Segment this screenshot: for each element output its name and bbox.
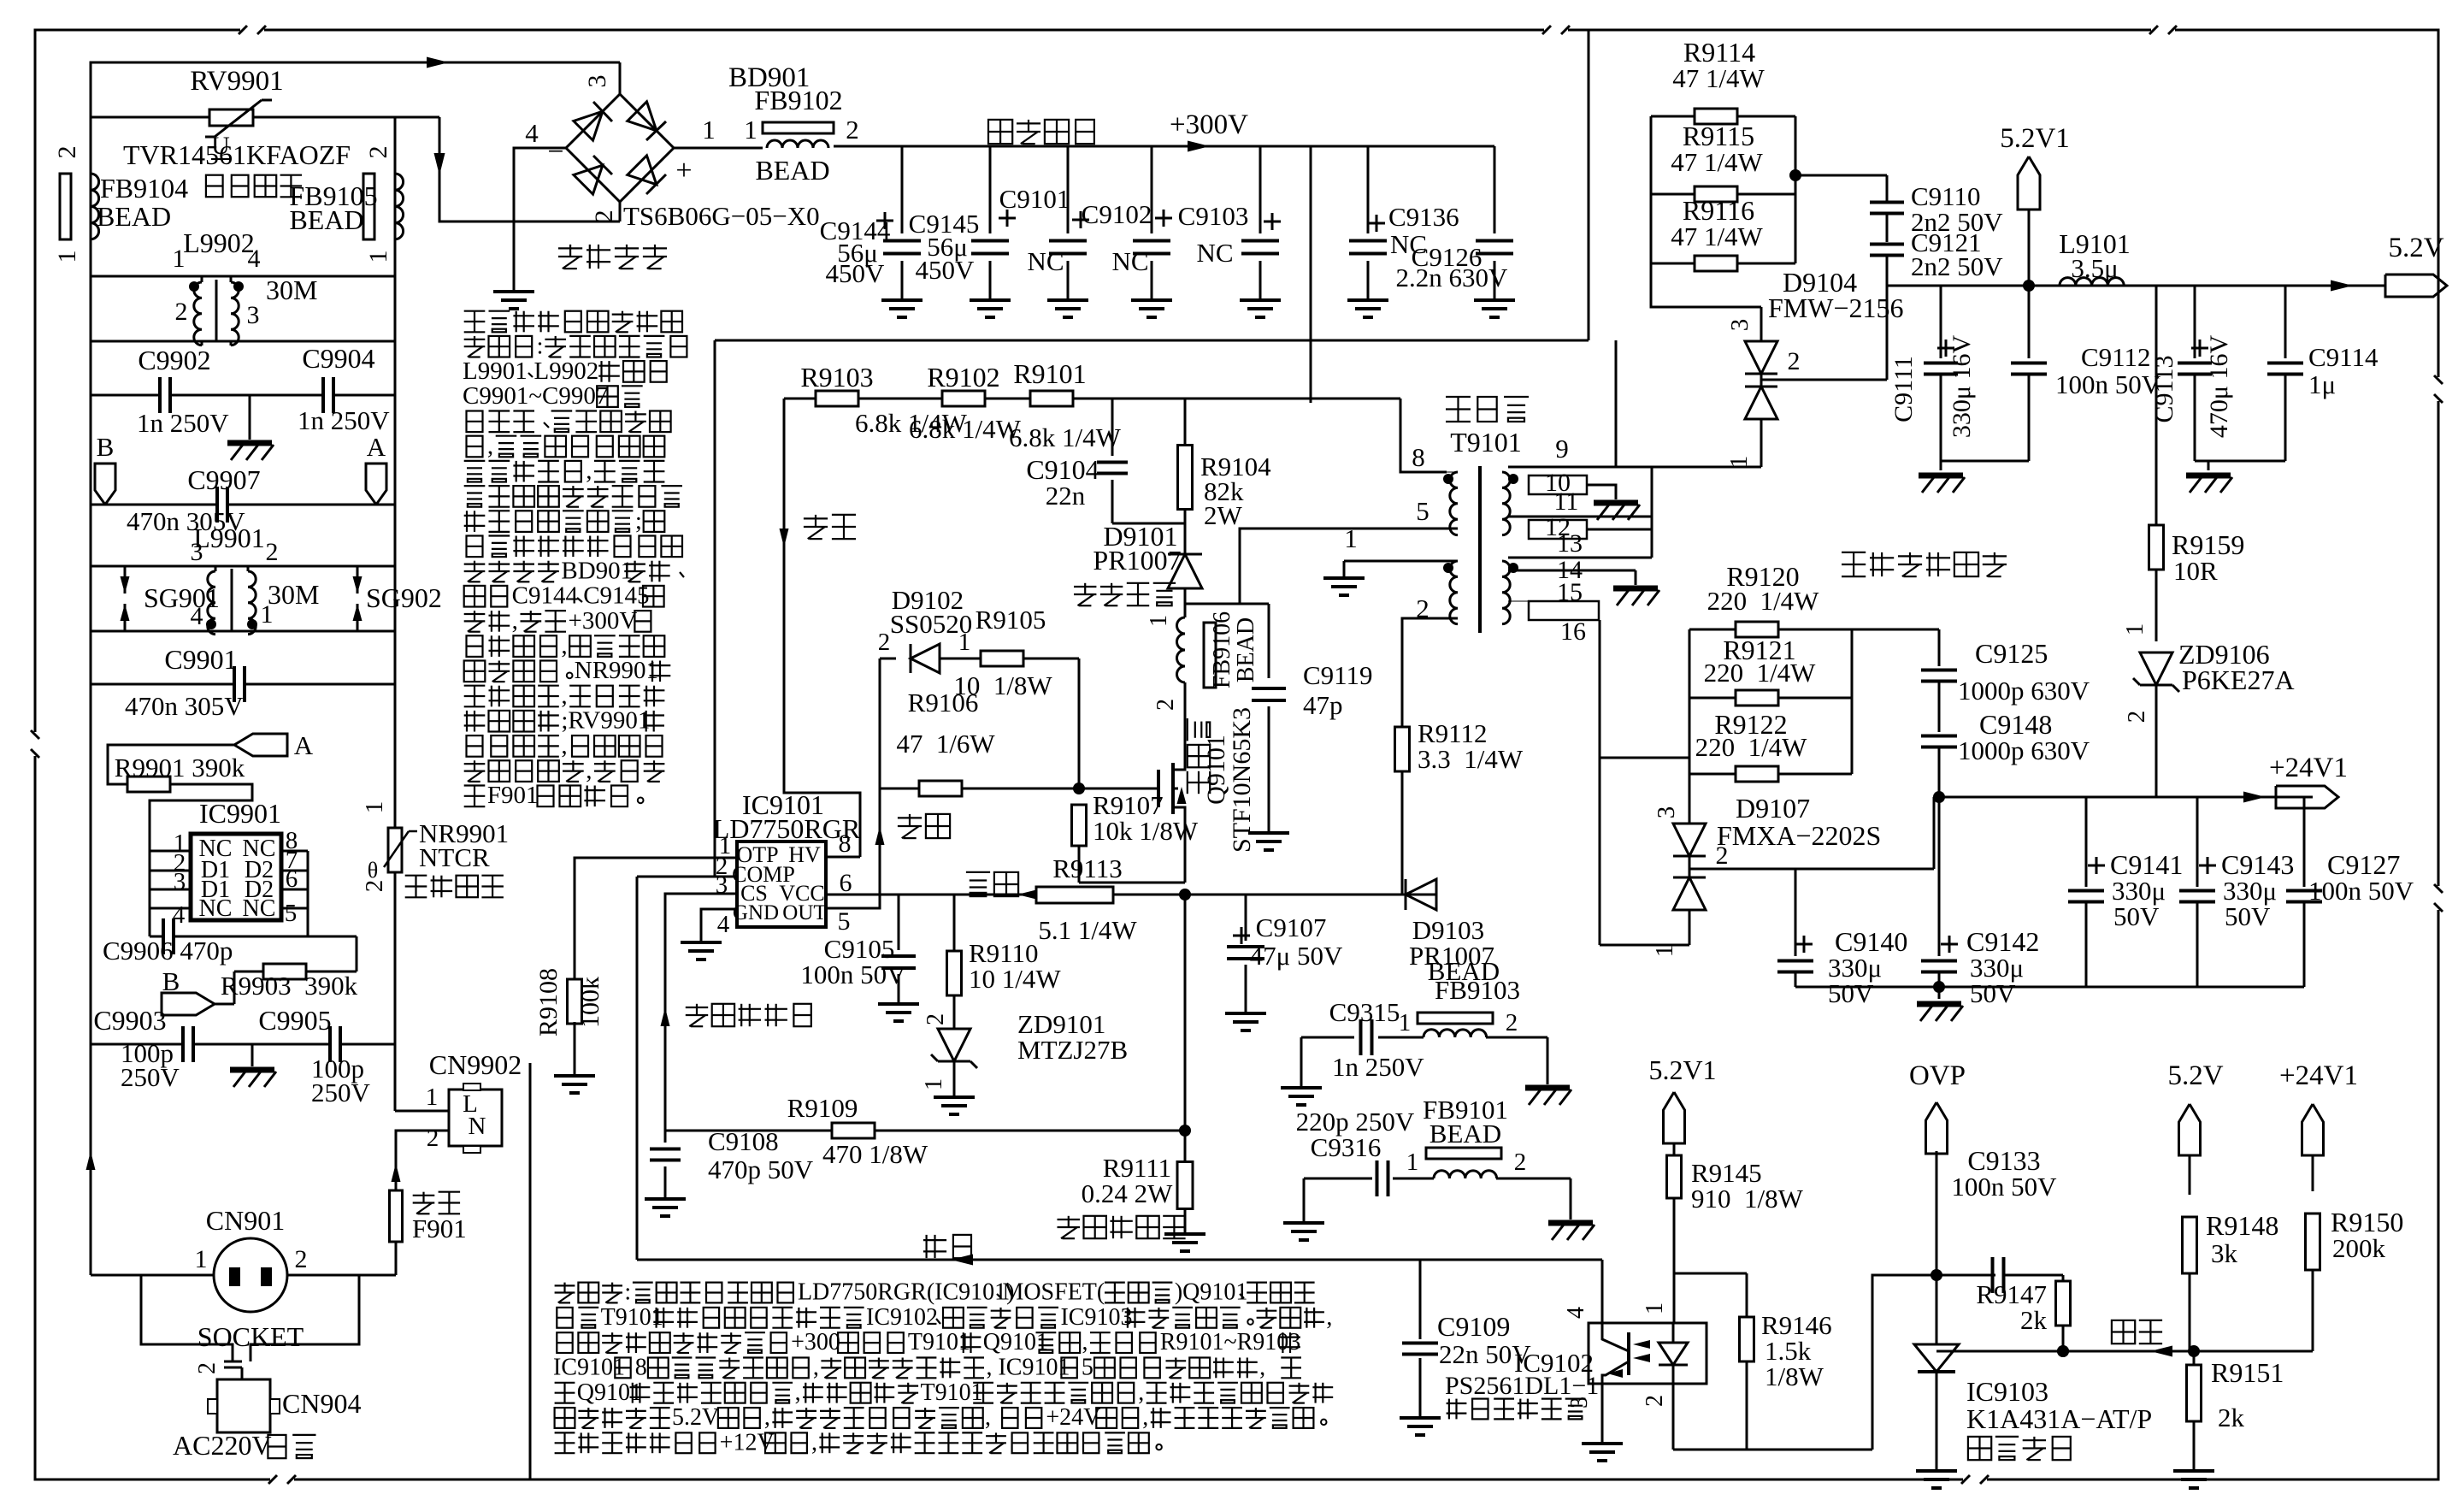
current sense resistor R9111 <box>1184 895 1187 1165</box>
wire chain to caps <box>1795 174 1887 177</box>
svg-text:;: ; <box>635 507 642 534</box>
svg-text:2: 2 <box>364 146 392 159</box>
svg-text:1: 1 <box>2121 623 2149 636</box>
svg-text:3k: 3k <box>2211 1238 2238 1268</box>
svg-text:5: 5 <box>838 907 851 936</box>
svg-text:8: 8 <box>839 830 852 858</box>
wire L9901 top <box>91 565 395 568</box>
wire to R9159 <box>2155 286 2158 525</box>
svg-text:47μ 50V: 47μ 50V <box>1250 941 1343 971</box>
svg-text:,: , <box>487 432 493 459</box>
pin13 wire <box>1508 557 1652 559</box>
svg-text:L9902: L9902 <box>534 357 599 385</box>
resistor R9107 <box>1072 805 1087 846</box>
svg-text:3.3 1/4W: 3.3 1/4W <box>1418 744 1524 774</box>
border break marks <box>240 25 264 35</box>
flag A mid <box>234 734 287 756</box>
svg-text:,: , <box>512 607 518 635</box>
svg-text:C9108: C9108 <box>708 1126 779 1156</box>
svg-text:9: 9 <box>1555 434 1569 464</box>
svg-text:R9108: R9108 <box>534 968 563 1036</box>
pin1 lead to R9108 <box>575 858 737 981</box>
svg-text:R9148: R9148 <box>2206 1210 2278 1241</box>
pin2 lead COMP <box>637 876 737 878</box>
svg-text:11: 11 <box>1554 487 1579 516</box>
svg-text:50V: 50V <box>2225 901 2271 931</box>
svg-text:CN9902: CN9902 <box>429 1049 522 1080</box>
svg-text:2: 2 <box>878 629 891 656</box>
svg-text:220 1/4W: 220 1/4W <box>1704 658 1817 688</box>
caps C9110 C9121 <box>1886 175 1889 202</box>
svg-text:22n 50V: 22n 50V <box>1439 1339 1531 1369</box>
arrow on top wire <box>427 57 449 68</box>
cap C9142 <box>1938 797 1941 956</box>
wire top L line <box>91 62 620 117</box>
svg-text:NTCR: NTCR <box>419 842 490 872</box>
svg-text:22n: 22n <box>1046 481 1086 511</box>
svg-text:R9103: R9103 <box>800 362 873 393</box>
fuse F901 <box>390 1190 403 1242</box>
IC9901 pin leads right <box>281 850 308 853</box>
secondary gnd rail <box>1795 986 2304 989</box>
svg-text:3: 3 <box>1726 319 1754 332</box>
resistor R9146 <box>1746 1273 1748 1317</box>
svg-text:−: − <box>547 136 563 168</box>
svg-text:F901: F901 <box>487 782 539 809</box>
zener ZD9106 <box>2140 653 2172 685</box>
wire CN9902 N to fuse <box>396 1131 449 1190</box>
svg-text:C9901~C9907: C9901~C9907 <box>463 382 608 410</box>
svg-text:;RV9901: ;RV9901 <box>561 707 650 735</box>
svg-text:MOSFET(: MOSFET( <box>1002 1279 1105 1306</box>
svg-text:1: 1 <box>173 245 186 273</box>
caps C9125 C9148 <box>1938 629 1941 666</box>
svg-text:C9113: C9113 <box>2150 356 2178 423</box>
svg-text:C9114: C9114 <box>2308 342 2379 372</box>
D9104 left bus <box>1651 263 1761 307</box>
svg-text:4: 4 <box>248 245 261 273</box>
resistor R9151 <box>2193 1351 2196 1365</box>
svg-text:NC: NC <box>1027 246 1064 276</box>
wire AC to bridge pin2 <box>439 117 620 221</box>
svg-text:IC9103: IC9103 <box>1966 1376 2048 1407</box>
svg-text:C9103: C9103 <box>1178 201 1249 231</box>
snubber C9315 row <box>1301 1036 1354 1039</box>
svg-text:3: 3 <box>1653 806 1680 819</box>
svg-text:B: B <box>162 966 180 996</box>
svg-text:IC9901: IC9901 <box>199 798 281 829</box>
resistor R9145 <box>1667 1155 1682 1198</box>
C9111 C9112 gnd <box>1941 460 2029 463</box>
svg-text:50V: 50V <box>1970 978 2016 1008</box>
svg-text:L9901: L9901 <box>463 357 528 385</box>
svg-text:30M: 30M <box>268 579 319 610</box>
svg-text:C9315: C9315 <box>1329 997 1400 1027</box>
wire CN9902 L <box>394 1044 397 1111</box>
svg-text:,: , <box>561 682 567 709</box>
wire y398 bus <box>715 340 1589 342</box>
svg-text:+24V: +24V <box>1046 1404 1100 1431</box>
diode D9104 <box>1760 307 1763 342</box>
pin5 OUT lead <box>826 658 880 908</box>
svg-text:PR1007: PR1007 <box>1093 545 1181 576</box>
IC9901 pin leads left <box>150 850 191 853</box>
svg-text:47 1/6W: 47 1/6W <box>896 729 995 759</box>
svg-text:FB9102: FB9102 <box>754 85 842 115</box>
svg-text:5.2V1: 5.2V1 <box>2000 123 2070 154</box>
socket lower loop <box>141 1275 233 1361</box>
chassis ground mid <box>249 395 251 440</box>
svg-text:IC9103: IC9103 <box>1060 1304 1132 1331</box>
startup resistor row <box>784 398 816 400</box>
diode D9101 snubber <box>1184 523 1187 554</box>
svg-text:SG902: SG902 <box>366 582 442 613</box>
wire pin9 riser <box>1615 340 1618 467</box>
diode D9107 <box>1673 824 1706 856</box>
sampling rail <box>1936 1350 2313 1353</box>
D9107 pin2 rail <box>1689 868 1934 871</box>
svg-text:2: 2 <box>1514 1149 1527 1176</box>
svg-text:C9101: C9101 <box>999 184 1070 214</box>
svg-text:330μ 16V: 330μ 16V <box>1948 335 1976 439</box>
cap C9113 <box>2194 286 2196 358</box>
wire L9901 bottom <box>91 630 395 633</box>
svg-text:T9101: T9101 <box>1450 427 1522 458</box>
svg-text:A: A <box>367 432 386 462</box>
svg-text:10R: 10R <box>2173 556 2218 586</box>
cap C9111 <box>1940 286 1942 358</box>
bridge pin3 wire <box>619 62 622 94</box>
bridge BD901 <box>566 94 674 202</box>
svg-text:100n 50V: 100n 50V <box>800 960 906 989</box>
resistor R9110 <box>953 895 956 951</box>
wire L9902 top <box>91 275 395 278</box>
svg-text:BEAD: BEAD <box>1233 617 1259 682</box>
svg-text:R9101~R9103: R9101~R9103 <box>1160 1329 1301 1355</box>
svg-text:3: 3 <box>247 301 260 329</box>
svg-text:10 1/4W: 10 1/4W <box>969 964 1061 994</box>
svg-text:1: 1 <box>261 600 274 629</box>
svg-text:,: , <box>586 757 592 784</box>
svg-text:R9105: R9105 <box>976 605 1046 635</box>
svg-text:+24V1: +24V1 <box>2269 753 2348 783</box>
svg-text:1μ: 1μ <box>2308 369 2336 399</box>
svg-text:C9112: C9112 <box>2081 342 2151 372</box>
svg-text:2: 2 <box>175 298 188 326</box>
svg-text:100n 50V: 100n 50V <box>1951 1172 2057 1202</box>
wire R9901 net <box>108 745 234 784</box>
svg-text:BEAD: BEAD <box>1429 1119 1501 1149</box>
svg-text:T9101: T9101 <box>908 1329 970 1355</box>
svg-text:FB9106: FB9106 <box>1209 611 1235 688</box>
svg-text:2.2n 630V: 2.2n 630V <box>1396 263 1509 292</box>
svg-text:R9106: R9106 <box>908 688 979 718</box>
COMP to regulation rail <box>636 877 639 1260</box>
svg-text:R9113: R9113 <box>1052 853 1123 883</box>
spark gap SG902 <box>357 566 359 594</box>
diode D9103 <box>1406 879 1436 910</box>
pin16 taps to D9107 <box>1600 757 1689 759</box>
svg-text:2W: 2W <box>1204 500 1243 530</box>
svg-text:C9316: C9316 <box>1311 1132 1382 1162</box>
pins 9-13 join <box>1651 467 1653 558</box>
svg-text:5.2V: 5.2V <box>2388 233 2443 263</box>
svg-text::: : <box>537 333 544 360</box>
svg-text:LD7750RGR(IC9101): LD7750RGR(IC9101) <box>798 1279 1015 1306</box>
regulation rail <box>637 1259 1602 1261</box>
gate net down <box>1078 658 1081 788</box>
svg-text:470n 305V: 470n 305V <box>125 691 244 721</box>
svg-text:+300: +300 <box>791 1329 840 1355</box>
svg-text:470p 50V: 470p 50V <box>708 1155 814 1184</box>
bridge pin2 wire <box>619 202 622 221</box>
svg-text:2n2 50V: 2n2 50V <box>1911 251 2003 281</box>
zener ZD9101 <box>938 1029 970 1061</box>
svg-text:1/8W: 1/8W <box>1765 1361 1824 1391</box>
svg-text:1: 1 <box>958 629 971 656</box>
+24V1 rail <box>1934 796 2313 799</box>
wire x1858 up to border <box>1588 31 1590 340</box>
svg-text:2: 2 <box>1642 1395 1668 1407</box>
label secondary rect CJK <box>1842 552 1866 553</box>
resistor R9147 <box>2062 1275 2065 1282</box>
resistor R9150 <box>2306 1214 2320 1270</box>
svg-text:2: 2 <box>2123 711 2150 723</box>
D9104 pin2 wire <box>1761 379 1887 381</box>
wire C9907 row <box>91 504 217 506</box>
svg-text:,: , <box>1326 1304 1332 1331</box>
svg-text:C9144: C9144 <box>512 582 579 610</box>
svg-text:8: 8 <box>635 1355 647 1381</box>
svg-text:,: , <box>811 1429 817 1456</box>
svg-text:R9101: R9101 <box>1013 358 1086 389</box>
separator line <box>529 1063 532 1479</box>
svg-text:STF10N65K3: STF10N65K3 <box>1228 707 1256 853</box>
svg-text:,: , <box>1082 1329 1088 1355</box>
svg-text:2: 2 <box>194 1362 221 1374</box>
svg-text:C9907: C9907 <box>187 464 260 495</box>
svg-text:100k: 100k <box>576 977 604 1028</box>
pin4 lead GND <box>701 909 737 942</box>
cap C9114 <box>2284 286 2287 358</box>
left block left wire <box>90 117 92 1275</box>
svg-text:1: 1 <box>1651 945 1678 958</box>
text block anti-interference CJK <box>464 310 486 312</box>
arrow left line <box>86 1151 96 1170</box>
svg-text:,: , <box>1142 1404 1148 1431</box>
svg-text:+: + <box>675 155 692 186</box>
svg-text:C9111: C9111 <box>1889 356 1918 422</box>
svg-text:FB9104: FB9104 <box>100 173 188 204</box>
pin14 wire <box>1508 570 1636 572</box>
svg-text:L9902: L9902 <box>183 227 255 258</box>
svg-text:2: 2 <box>846 115 859 145</box>
svg-text:1: 1 <box>1406 1149 1419 1176</box>
pin8 HV lead <box>826 856 860 859</box>
cap C9140 <box>1795 869 1797 956</box>
svg-text:3: 3 <box>583 75 611 88</box>
svg-text:30M: 30M <box>266 275 317 305</box>
svg-text:1: 1 <box>426 1084 439 1111</box>
svg-text:BEAD: BEAD <box>97 201 171 232</box>
svg-text:2: 2 <box>295 1245 308 1273</box>
svg-text:2k: 2k <box>2218 1403 2245 1432</box>
varistor RV9901 <box>209 109 253 126</box>
svg-text:,: , <box>561 732 567 759</box>
CS sense row R9109 <box>665 1130 833 1132</box>
svg-text:5: 5 <box>1082 1355 1093 1381</box>
svg-text:NC: NC <box>243 895 276 922</box>
svg-text:8: 8 <box>1412 442 1425 472</box>
T9101 primary top winding <box>1450 472 1458 535</box>
svg-text:OUT: OUT <box>782 901 826 924</box>
cap C9108 <box>664 1131 667 1143</box>
filter caps on rail <box>901 146 904 233</box>
svg-text:R9151: R9151 <box>2211 1357 2284 1388</box>
bridge pin4 wire <box>514 148 566 292</box>
svg-text:C9145: C9145 <box>583 582 649 610</box>
svg-text:A: A <box>294 730 314 760</box>
svg-text:47 1/4W: 47 1/4W <box>1671 221 1763 251</box>
svg-text:100n 50V: 100n 50V <box>2308 876 2414 906</box>
svg-text:16: 16 <box>1560 617 1586 646</box>
svg-text:1: 1 <box>1399 1009 1412 1036</box>
svg-text:C9107: C9107 <box>1256 912 1327 942</box>
svg-text:220 1/4W: 220 1/4W <box>1695 732 1808 762</box>
svg-text:1: 1 <box>744 115 757 145</box>
T9101 secondary upper winding <box>1502 472 1510 535</box>
svg-text:+24V1: +24V1 <box>2279 1060 2358 1091</box>
svg-text:50V: 50V <box>1828 978 1874 1008</box>
T9101 pin1 wire <box>1344 560 1458 563</box>
svg-text:BEAD: BEAD <box>1428 956 1500 986</box>
svg-text:FMXA−2202S: FMXA−2202S <box>1717 820 1881 851</box>
pin11 wire <box>1508 516 1652 518</box>
svg-text:1: 1 <box>1344 523 1358 553</box>
svg-text:47 1/4W: 47 1/4W <box>1671 147 1763 177</box>
svg-text:+300V: +300V <box>1170 109 1248 140</box>
svg-text:6.8k 1/4W: 6.8k 1/4W <box>1009 422 1122 452</box>
bridge pin1 wire <box>674 147 763 150</box>
svg-text:B: B <box>97 432 115 462</box>
CN904 plug pins <box>224 1361 242 1363</box>
svg-text:NR9901: NR9901 <box>575 657 658 684</box>
svg-text:C9902: C9902 <box>138 345 210 375</box>
svg-text:,: , <box>813 1355 819 1381</box>
svg-text:1n 250V: 1n 250V <box>1332 1052 1424 1082</box>
svg-text:T9101: T9101 <box>601 1304 663 1331</box>
svg-text:F901: F901 <box>412 1214 467 1243</box>
svg-text:3: 3 <box>191 538 203 566</box>
svg-text:TS6B06G−05−X0: TS6B06G−05−X0 <box>623 201 820 231</box>
arrow fuse <box>392 1163 401 1182</box>
svg-text:1: 1 <box>1146 615 1172 627</box>
svg-text:2: 2 <box>1506 1009 1518 1036</box>
svg-text:2k: 2k <box>2020 1305 2048 1335</box>
cap C9119 <box>1185 603 1269 605</box>
svg-text:250V: 250V <box>311 1078 371 1107</box>
svg-text:C9119: C9119 <box>1303 660 1373 690</box>
svg-text:2: 2 <box>53 146 81 159</box>
opto transistor <box>1627 1332 1630 1375</box>
svg-text:D9107: D9107 <box>1736 793 1810 824</box>
overcurrent arrow <box>661 1007 670 1026</box>
connector CN904 <box>217 1379 270 1432</box>
regulation rail corner to opto <box>1601 1260 1604 1323</box>
svg-text:4: 4 <box>1563 1307 1589 1319</box>
svg-text:,: , <box>795 1379 801 1406</box>
svg-text:C9136: C9136 <box>1388 202 1459 232</box>
svg-text:,: , <box>764 1404 770 1431</box>
svg-text:BEAD: BEAD <box>755 155 829 186</box>
svg-text:4: 4 <box>717 911 730 938</box>
svg-text:K1A431A−AT/P: K1A431A−AT/P <box>1966 1403 2152 1434</box>
wire pin8 feed <box>1400 399 1447 472</box>
opto pin3 gnd <box>1601 1384 1604 1444</box>
svg-text:C9903: C9903 <box>93 1005 166 1036</box>
C9113 C9114 gnd <box>2195 460 2285 463</box>
svg-text:R9903 390k: R9903 390k <box>221 971 358 1001</box>
svg-text:CN904: CN904 <box>282 1388 361 1419</box>
gate network D9102 <box>880 658 896 660</box>
flag B mid <box>162 993 215 1015</box>
R912x buses <box>1689 629 1691 824</box>
svg-text:5.1 1/4W: 5.1 1/4W <box>1038 915 1137 945</box>
resistor R9901 <box>127 777 170 792</box>
bead FB9105 <box>363 174 374 239</box>
svg-text:R9109: R9109 <box>787 1093 858 1123</box>
svg-text:220 1/4W: 220 1/4W <box>1707 586 1820 616</box>
svg-text:,: , <box>561 632 567 659</box>
pin6 VCC lead <box>826 894 899 896</box>
opto pin2 wire <box>1672 1384 1675 1450</box>
svg-text:Q9101: Q9101 <box>1202 735 1230 805</box>
arrow 5.2V <box>2331 281 2353 292</box>
NTC NR9901 <box>388 828 402 872</box>
wire to R9146 <box>1674 1273 1747 1275</box>
left block right wire <box>394 117 397 1044</box>
svg-text:1: 1 <box>195 1245 208 1273</box>
pin5 route to drain <box>1240 529 1373 604</box>
svg-text:1: 1 <box>364 251 392 263</box>
T9101 core <box>1478 466 1482 633</box>
ground bridge <box>493 290 534 293</box>
5.2V rail <box>1887 285 2385 287</box>
svg-text:NC: NC <box>199 895 233 922</box>
svg-text:200k: 200k <box>2332 1233 2386 1263</box>
svg-text:1: 1 <box>702 115 716 145</box>
svg-text:C9102: C9102 <box>1082 199 1152 229</box>
svg-text:2: 2 <box>427 1125 439 1152</box>
arrow down AC <box>434 153 445 175</box>
snubber C9316 row <box>1304 1178 1372 1180</box>
svg-text:1: 1 <box>1642 1302 1668 1314</box>
+300V rail <box>834 145 1494 148</box>
svg-text:NC: NC <box>1111 246 1148 276</box>
bead FB9106 <box>1184 609 1187 617</box>
svg-text:+300V: +300V <box>569 607 638 635</box>
svg-text:1: 1 <box>921 1078 947 1090</box>
opto LED <box>1659 1343 1688 1365</box>
label yamin CJK <box>206 175 223 198</box>
svg-text:BD901: BD901 <box>561 557 633 584</box>
svg-text:450V: 450V <box>826 258 886 288</box>
pin12 strap <box>1529 520 1587 539</box>
cap C9112 <box>2028 286 2031 358</box>
svg-text:2: 2 <box>590 210 618 223</box>
cap C9127 <box>2303 797 2306 887</box>
cap C9105 <box>898 895 900 950</box>
